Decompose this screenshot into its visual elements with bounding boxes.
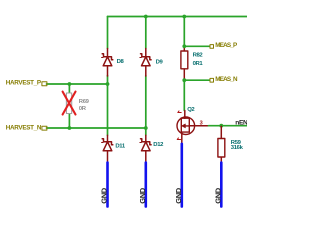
svg-text:R82: R82 (193, 53, 204, 59)
wire R82 column upper (183, 17, 185, 47)
svg-text:GND: GND (100, 187, 109, 203)
junction MEAS_N / R82 (182, 78, 186, 82)
resistor R59 body (218, 139, 225, 158)
svg-text:HARVEST_P: HARVEST_P (6, 80, 41, 87)
resistor R59 pins (220, 126, 222, 162)
gnd wire R59 column (220, 163, 223, 207)
junction HARVEST_N / D12 column (144, 126, 148, 130)
zener diode D12 (140, 135, 151, 162)
zener diode D8 (102, 49, 113, 77)
wire top horizontal net (108, 16, 248, 18)
svg-text:316k: 316k (231, 145, 244, 151)
wire nEN horizontal (209, 125, 248, 127)
svg-text:D11: D11 (115, 144, 126, 150)
svg-text:HARVEST_N: HARVEST_N (6, 124, 42, 131)
wire D8 column upper (107, 17, 109, 49)
gnd wire D11 column (106, 163, 109, 207)
hierarchical label MEAS_N (210, 78, 214, 82)
wire HARVEST_N horizontal (47, 127, 146, 129)
wire R82 column to Q2 (183, 80, 185, 110)
svg-text:D8: D8 (117, 59, 125, 65)
svg-text:Q2: Q2 (187, 107, 195, 113)
pin number 2 of Q2 (177, 138, 180, 140)
junction top net / D9 (144, 15, 148, 19)
svg-text:D9: D9 (156, 59, 164, 65)
junction HARVEST_P / D8 column (106, 82, 110, 86)
resistor R82 pins (183, 47, 185, 80)
svg-text:R69: R69 (79, 99, 90, 105)
gnd wire D12 column (145, 163, 148, 207)
junction HARVEST_N / R69 (68, 126, 72, 130)
DNP cross over R69 (63, 92, 76, 115)
zener diode D11 (102, 135, 113, 162)
gnd wire Q2 column (181, 144, 184, 207)
wire D8-D11 column middle (107, 76, 109, 136)
wire D9-D12 column middle (145, 76, 147, 136)
svg-text:nEN: nEN (235, 119, 247, 126)
wire D9 column upper (145, 17, 147, 49)
svg-text:MEAS_N: MEAS_N (215, 76, 238, 83)
svg-text:MEAS_P: MEAS_P (215, 42, 237, 49)
zener diode D9 (140, 49, 151, 77)
svg-text:GND: GND (174, 187, 183, 203)
wire HARVEST_P horizontal (47, 83, 108, 85)
resistor R69 body (66, 93, 71, 114)
svg-text:GND: GND (214, 187, 223, 203)
hierarchical label MEAS_P (210, 45, 214, 49)
junction nEN / R59 (219, 124, 223, 128)
svg-text:0R1: 0R1 (193, 61, 204, 67)
svg-text:GND: GND (138, 187, 147, 203)
svg-text:3: 3 (200, 120, 203, 126)
transistor Q2 (177, 111, 209, 144)
hierarchical label HARVEST_N (42, 126, 47, 130)
junction MEAS_P / R82 (182, 44, 186, 48)
svg-text:D12: D12 (153, 142, 164, 148)
svg-text:0R: 0R (79, 106, 87, 112)
wire MEAS_P horizontal (184, 45, 209, 47)
resistor R82 body (181, 51, 188, 69)
junction top net / R82 (182, 15, 186, 19)
pin number 1 of Q2 (178, 111, 181, 113)
hierarchical label HARVEST_P (42, 82, 47, 86)
wire MEAS_N horizontal (184, 79, 209, 81)
junction HARVEST_P / R69 (68, 82, 72, 86)
resistor R69 (DNP) stubs (68, 84, 70, 128)
